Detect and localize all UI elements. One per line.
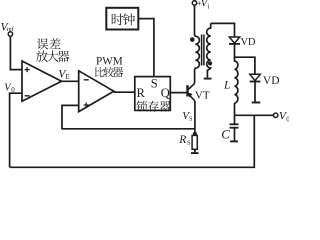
svg-text:R: R [178, 134, 186, 146]
svg-text:S: S [189, 116, 193, 123]
wire secondary top to diode VD1 [211, 23, 235, 37]
wire VT emitter to Vs node [194, 101, 196, 135]
svg-text:PWM: PWM [96, 55, 123, 67]
svg-text:S: S [187, 140, 191, 147]
node V0 output terminal [274, 111, 291, 124]
wire Vs sense to PWM comparator + input [62, 105, 195, 128]
wire Vref to error amp + input [10, 36, 22, 69]
svg-text:ref: ref [7, 26, 15, 33]
wire VD2 cathode to ground [254, 82, 256, 102]
wire +Vi to transformer primary [194, 5, 196, 35]
node +Vi terminal [192, 0, 209, 10]
ground below VD2 [252, 102, 261, 104]
transformer T1 primary winding [195, 35, 200, 69]
diode VD2 (freewheeling) [250, 74, 280, 87]
node Vref terminal [1, 22, 15, 37]
svg-text:L: L [223, 80, 230, 92]
svg-text:S: S [151, 77, 158, 91]
wire secondary bottom to ground [206, 70, 208, 78]
node VE [58, 69, 69, 81]
transformer secondary phase dot [208, 61, 212, 65]
diode VD1 (rectifier) [229, 37, 255, 48]
ground below Rs [191, 149, 199, 153]
svg-text:Q: Q [161, 86, 170, 100]
svg-text:i: i [207, 2, 209, 10]
wire PWM output to latch R input [114, 91, 135, 93]
svg-text:0: 0 [286, 115, 289, 123]
wire error amp output to PWM comparator - input [61, 80, 79, 82]
wire VT collector to transformer primary [194, 69, 196, 84]
svg-text:VT: VT [195, 90, 210, 102]
wire latch Q output to VT base [170, 92, 186, 94]
svg-text:C: C [221, 127, 230, 142]
capacitor C [221, 115, 238, 141]
svg-text:R: R [137, 86, 146, 100]
svg-text:VD: VD [241, 37, 256, 48]
ground below secondary [204, 78, 212, 80]
clock box [106, 8, 138, 30]
latch U3 (RS latch) [135, 77, 171, 112]
transformer core [202, 35, 204, 66]
wire feedback from bottom rail to error amp - input [10, 93, 22, 167]
transistor VT (NPN) [188, 84, 210, 102]
inductor L [223, 57, 238, 103]
resistor Rs [178, 134, 197, 149]
node V0 feedback label (left) [4, 83, 15, 95]
transformer T1 secondary winding [207, 23, 211, 70]
wire clock to latch S input [138, 19, 154, 77]
wire VD1 cathode to L / VD2 junction [235, 44, 255, 74]
svg-text:E: E [65, 73, 69, 81]
wire V0 to bottom feedback rail [10, 115, 255, 167]
node Vs junction [182, 110, 197, 136]
op-amp U1 error amplifier [22, 38, 69, 101]
svg-text:VD: VD [263, 75, 280, 87]
ground below C [230, 128, 238, 142]
op-amp U2 PWM comparator [79, 55, 124, 111]
wire L to V0 output [234, 103, 236, 115]
transformer primary phase dot [190, 37, 195, 42]
wire V0 output line [235, 114, 274, 116]
